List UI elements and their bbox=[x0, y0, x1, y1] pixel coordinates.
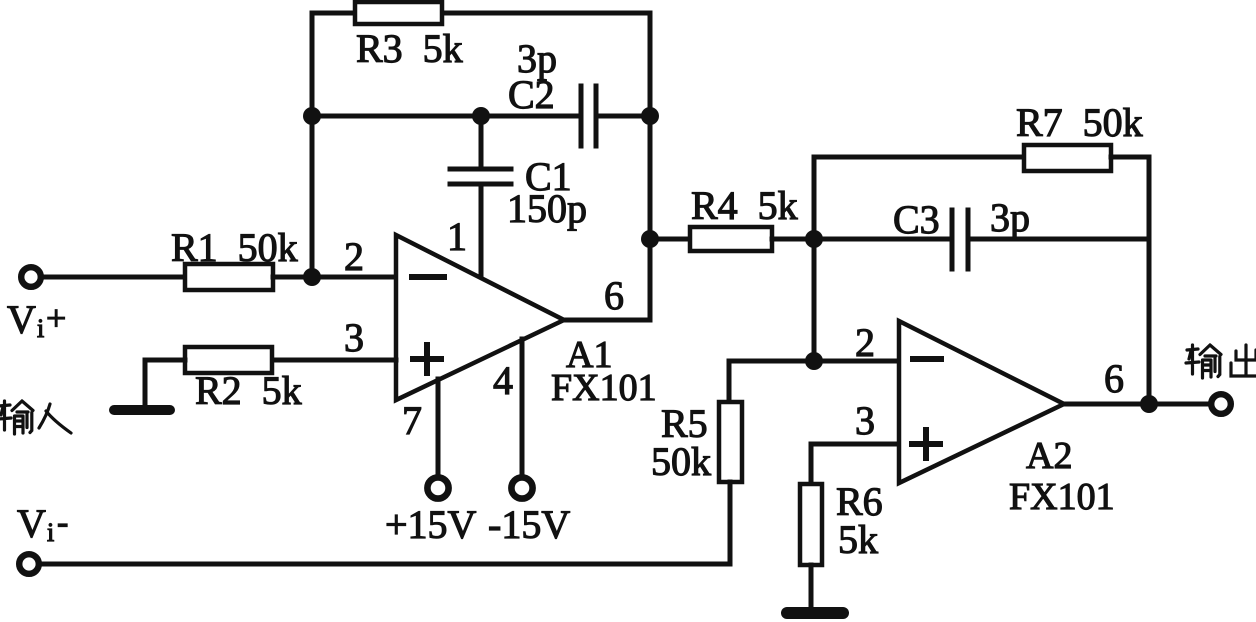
resistor R5 bbox=[719, 402, 742, 482]
wire Vi- line bbox=[43, 562, 730, 567]
wire A2 pin2 bbox=[729, 359, 899, 364]
svg-text:3: 3 bbox=[344, 315, 364, 360]
wire pin3 to R2 bbox=[272, 358, 396, 363]
resistor R7 bbox=[1024, 145, 1111, 171]
svg-text:R3 5k: R3 5k bbox=[356, 26, 463, 71]
node junction R1/R3 bbox=[303, 268, 321, 286]
op-amp A2 minus input bbox=[913, 356, 941, 362]
wire R6 top bbox=[809, 444, 814, 484]
wire C3 rail left bbox=[814, 237, 950, 242]
ground A1 bbox=[114, 405, 170, 415]
svg-text:3: 3 bbox=[855, 398, 875, 443]
wire pin6 output A1 bbox=[563, 318, 650, 323]
svg-text:+: + bbox=[46, 298, 66, 338]
wire C3 rail right bbox=[968, 237, 1149, 242]
node junction C1 top bbox=[472, 107, 490, 125]
wire left loop vertical bbox=[310, 13, 315, 277]
node junction right rail bbox=[641, 107, 659, 125]
svg-text:-: - bbox=[57, 504, 68, 541]
wire loop2 top bbox=[814, 155, 1024, 160]
capacitor C3 bbox=[952, 210, 968, 269]
wire right loop vertical bbox=[648, 13, 653, 320]
svg-text:150p: 150p bbox=[507, 186, 587, 231]
svg-text:R1 50k: R1 50k bbox=[171, 225, 298, 270]
svg-text:3p: 3p bbox=[990, 195, 1030, 240]
svg-text:R4 5k: R4 5k bbox=[691, 183, 798, 228]
terminal -15V bbox=[511, 477, 532, 498]
svg-text:+15V: +15V bbox=[385, 502, 477, 547]
node junction left rail bbox=[303, 107, 321, 125]
svg-text:C2: C2 bbox=[508, 72, 555, 117]
wire right vertical to output bbox=[1147, 157, 1152, 404]
op-amp A1 minus input bbox=[412, 274, 444, 280]
svg-text:1: 1 bbox=[447, 214, 467, 259]
ground A2 bbox=[787, 607, 843, 619]
op-amp U A1 bbox=[396, 235, 564, 400]
svg-text:6: 6 bbox=[604, 273, 624, 318]
wire R4 left bbox=[650, 237, 690, 242]
svg-text:i: i bbox=[37, 314, 44, 343]
svg-text:V: V bbox=[17, 501, 46, 546]
wire top loop horizontal bbox=[312, 11, 650, 16]
op-amp A2 plus input bbox=[912, 430, 940, 458]
resistor R1 bbox=[185, 264, 273, 290]
svg-text:-15V: -15V bbox=[488, 502, 570, 547]
svg-text:50k: 50k bbox=[651, 439, 711, 484]
wire mid rail bbox=[312, 114, 579, 119]
capacitor C1 bbox=[450, 169, 511, 184]
node junction output bbox=[1140, 395, 1158, 413]
wire R7 right bbox=[1111, 155, 1149, 160]
svg-text:2: 2 bbox=[855, 320, 875, 365]
op-amp U A2 bbox=[899, 321, 1064, 483]
wire C1 stem bottom (pin 1) bbox=[479, 184, 484, 278]
svg-text:7: 7 bbox=[402, 398, 422, 443]
svg-text:C3: C3 bbox=[893, 197, 940, 242]
wire R6 bottom bbox=[809, 565, 814, 610]
terminal Vi- bbox=[19, 554, 39, 574]
wire pin7 bbox=[436, 379, 441, 476]
node junction R4 right bbox=[805, 230, 823, 248]
wire R2 to ground bbox=[145, 360, 185, 406]
wire R5 top bbox=[727, 361, 732, 402]
resistor R6 bbox=[800, 484, 822, 565]
wire A2 pin3 bbox=[811, 442, 899, 447]
svg-text:FX101: FX101 bbox=[1009, 476, 1115, 518]
terminal output bbox=[1211, 394, 1231, 414]
terminal +15V bbox=[427, 477, 448, 498]
svg-text:4: 4 bbox=[493, 358, 513, 403]
wire A2 output bbox=[1064, 402, 1209, 407]
wire R5 bottom bbox=[728, 482, 733, 564]
svg-text:R2 5k: R2 5k bbox=[195, 368, 302, 413]
terminal Vi+ bbox=[21, 267, 41, 287]
label shuru (input) bbox=[0, 401, 71, 434]
wire R4 right bbox=[772, 237, 814, 242]
label shuchu (output) bbox=[1186, 345, 1256, 378]
wire R1 to pin2 bbox=[273, 275, 396, 280]
svg-text:i: i bbox=[47, 518, 54, 547]
label Vi+ bbox=[7, 297, 66, 343]
svg-text:FX101: FX101 bbox=[551, 367, 657, 409]
label Vi- bbox=[17, 501, 68, 547]
svg-text:R7 50k: R7 50k bbox=[1016, 100, 1143, 145]
wire C1 stem top bbox=[479, 116, 484, 169]
resistor R4 bbox=[690, 227, 772, 251]
wire C2 to right vertical bbox=[596, 114, 650, 119]
node junction R4 left bbox=[641, 230, 659, 248]
svg-text:V: V bbox=[7, 297, 36, 342]
svg-text:2: 2 bbox=[344, 234, 364, 279]
wire pin4 bbox=[520, 339, 525, 476]
svg-text:A2: A2 bbox=[1026, 435, 1072, 477]
op-amp A1 plus input bbox=[413, 345, 441, 373]
wire loop2 left vertical bbox=[812, 157, 817, 361]
resistor R2 bbox=[185, 347, 272, 373]
node junction A2 pin2 bbox=[805, 352, 823, 370]
svg-text:5k: 5k bbox=[838, 517, 878, 562]
resistor R3 bbox=[355, 2, 442, 24]
capacitor C2 bbox=[581, 86, 596, 146]
svg-text:6: 6 bbox=[1104, 356, 1124, 401]
wire Vi+ to R1 bbox=[44, 275, 185, 280]
